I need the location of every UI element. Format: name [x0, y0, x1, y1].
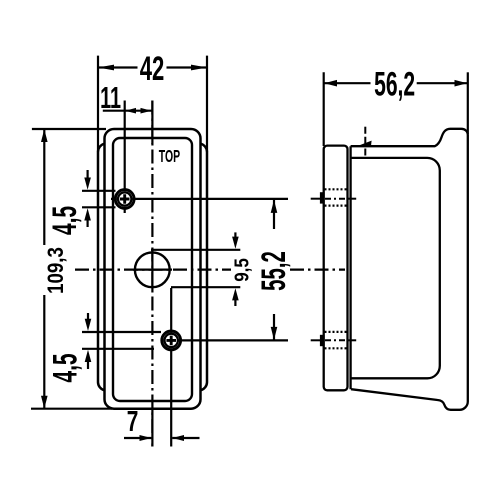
svg-text:4,5: 4,5	[45, 353, 83, 382]
svg-text:55,2: 55,2	[255, 251, 293, 291]
svg-text:109,3: 109,3	[45, 247, 69, 294]
svg-text:4,5: 4,5	[45, 206, 83, 235]
svg-text:42: 42	[140, 51, 165, 89]
svg-text:TOP: TOP	[159, 148, 180, 167]
svg-text:56,2: 56,2	[374, 64, 415, 102]
svg-text:11: 11	[100, 82, 121, 115]
svg-text:9,5: 9,5	[230, 258, 253, 282]
svg-text:7: 7	[127, 406, 139, 438]
